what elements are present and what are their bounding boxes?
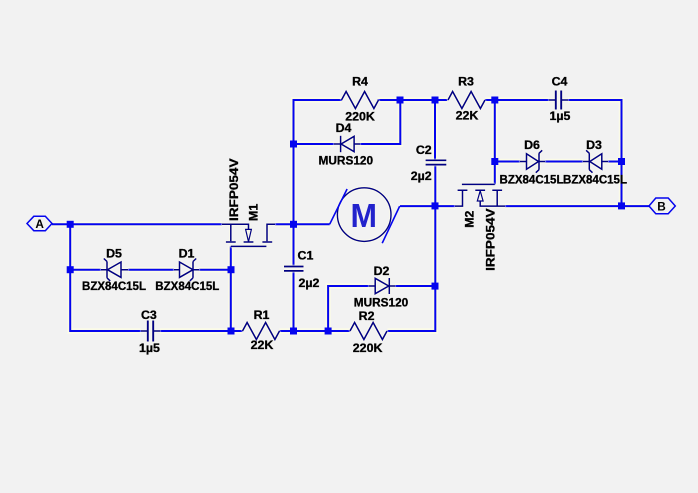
svg-text:C2: C2 [416, 143, 432, 157]
svg-text:22K: 22K [251, 338, 274, 352]
svg-text:R4: R4 [352, 75, 368, 89]
svg-text:D1: D1 [179, 246, 195, 260]
svg-text:1µ5: 1µ5 [550, 109, 571, 123]
svg-text:R1: R1 [254, 308, 270, 322]
svg-text:D5: D5 [106, 246, 122, 260]
svg-text:IRFP054V: IRFP054V [227, 158, 241, 221]
svg-text:C1: C1 [298, 249, 314, 263]
svg-text:BZX84C15L: BZX84C15L [155, 279, 219, 293]
svg-text:220K: 220K [353, 341, 383, 355]
svg-text:2µ2: 2µ2 [411, 169, 432, 183]
svg-text:M2: M2 [463, 210, 477, 227]
svg-text:R2: R2 [359, 309, 375, 323]
svg-text:2µ2: 2µ2 [299, 276, 320, 290]
svg-text:BZX84C15L: BZX84C15L [82, 279, 146, 293]
svg-text:A: A [35, 217, 44, 231]
svg-text:MURS120: MURS120 [354, 295, 409, 309]
svg-text:BZX84C15L: BZX84C15L [500, 172, 564, 186]
svg-text:C4: C4 [552, 75, 568, 89]
svg-text:M1: M1 [247, 204, 261, 221]
svg-text:IRFP054V: IRFP054V [484, 208, 498, 271]
svg-text:R3: R3 [458, 75, 474, 89]
svg-text:1µ5: 1µ5 [139, 341, 160, 355]
svg-text:C3: C3 [141, 308, 157, 322]
svg-text:M: M [351, 197, 378, 234]
svg-text:D3: D3 [586, 138, 602, 152]
svg-text:BZX84C15L: BZX84C15L [563, 172, 627, 186]
svg-text:D4: D4 [336, 121, 352, 135]
svg-text:D2: D2 [374, 264, 390, 278]
svg-text:MURS120: MURS120 [319, 154, 374, 168]
svg-text:22K: 22K [456, 109, 479, 123]
svg-text:D6: D6 [524, 138, 540, 152]
svg-text:B: B [657, 200, 666, 214]
